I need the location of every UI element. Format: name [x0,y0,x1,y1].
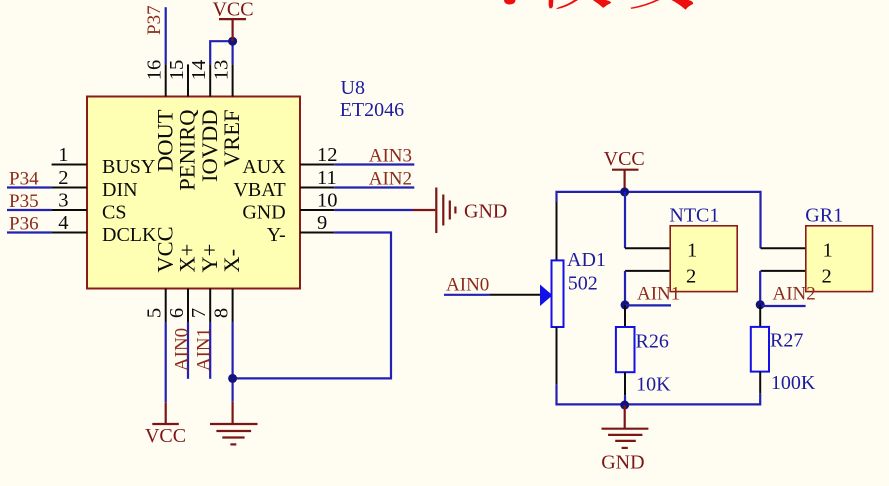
svg-text:AIN0: AIN0 [446,275,489,296]
cropped red heading strokes [504,0,693,10]
wire R26 bottom to rail [624,395,626,404]
wire VCC top rail [557,192,761,248]
wire pin10 to GND [334,209,413,211]
wire net AIN0 (wiper) [444,294,489,296]
svg-text:2: 2 [686,266,696,288]
junction pins13-14/VCC [228,37,237,46]
svg-text:AD1: AD1 [567,249,606,271]
svg-text:6: 6 [166,308,188,318]
pin 1 BUSY [52,144,156,178]
wire AD1 bottom to rail [557,384,626,404]
svg-text:3: 3 [58,189,68,211]
svg-text:Y+: Y+ [197,244,222,273]
svg-text:VCC: VCC [212,0,253,21]
svg-text:P36: P36 [9,214,39,235]
svg-text:VREF: VREF [219,110,244,168]
svg-text:13: 13 [210,60,232,81]
thermistor NTC1 [625,226,737,292]
svg-text:AIN0: AIN0 [172,328,193,371]
power VCC (top of IC) [212,0,253,41]
svg-text:VCC: VCC [145,425,186,447]
wire pin 9 Y- to pin 8 junction [233,233,391,379]
ground (earth, right circuit) [602,405,649,448]
pin 2 DIN [52,167,138,201]
wire pin 8 to ground [232,322,234,401]
wire net P34 [7,186,52,188]
svg-text:X-: X- [219,249,244,273]
svg-text:4: 4 [58,212,68,234]
wire pin 5 to VCC [165,322,167,402]
pin 11 VBAT [233,167,336,201]
wire net AIN1 (pin 7) [209,322,211,378]
junction pin 8 / Y- [228,374,237,383]
svg-text:AIN1: AIN1 [637,284,680,305]
svg-text:GR1: GR1 [805,205,843,227]
svg-text:1: 1 [823,240,833,262]
svg-text:8: 8 [210,308,232,318]
pin 6 X+ [166,244,200,323]
svg-text:502: 502 [568,273,598,295]
junction bottom rail GND [620,401,629,410]
svg-text:IOVDD: IOVDD [197,109,222,182]
pin 4 DCLK [52,212,157,246]
pin 15 PENIRQ [166,60,200,191]
potentiometer AD1 [489,202,563,384]
svg-text:10K: 10K [636,374,671,396]
junction VCC rail [620,187,629,196]
junction AIN1 node [621,300,630,309]
svg-text:VCC: VCC [604,148,645,170]
svg-text:DIN: DIN [102,179,138,201]
svg-text:GND: GND [601,452,644,474]
svg-text:DCLK: DCLK [102,224,157,246]
wire net AIN2 (pin 11) [334,186,414,188]
wire net AIN0 (pin 6) [187,322,189,378]
svg-text:P34: P34 [9,169,39,190]
svg-text:VBAT: VBAT [233,179,285,201]
svg-text:DOUT: DOUT [152,109,177,172]
wire rail to NTC1 pin 1 [624,192,626,248]
pin 14 IOVDD [188,60,222,182]
svg-text:P35: P35 [9,191,39,212]
IC U8 body [87,97,300,289]
svg-text:1: 1 [687,240,697,262]
svg-text:14: 14 [188,60,210,81]
wire net P37 (pin 16) [165,7,167,64]
svg-text:15: 15 [166,60,188,81]
svg-text:GND: GND [464,201,507,223]
svg-text:7: 7 [188,308,210,318]
pin 16 DOUT [144,60,178,172]
junction AIN2 node [756,300,765,309]
pin 12 AUX [242,144,337,178]
svg-text:Y-: Y- [267,224,286,246]
svg-text:GND: GND [242,202,285,224]
svg-text:11: 11 [317,167,337,189]
svg-text:2: 2 [822,266,832,288]
resistor R27 [751,305,769,394]
svg-text:9: 9 [317,212,327,234]
svg-text:5: 5 [144,308,166,318]
wire R27 bottom to rail [625,394,760,405]
pin 8 X- [210,249,244,323]
ground GND (sideways power ground at pin 10) [413,188,455,234]
pin 5 VCC [144,226,178,322]
svg-text:BUSY: BUSY [102,156,155,178]
power VCC (below pin 5) [145,402,186,447]
svg-text:AUX: AUX [242,156,286,178]
svg-text:R26: R26 [636,331,669,353]
wire NTC1 pin 2 to AIN1 node [624,271,626,305]
svg-text:VCC: VCC [152,226,177,272]
svg-text:U8: U8 [341,77,365,99]
pin 3 CS [52,189,127,223]
svg-text:16: 16 [144,60,166,81]
svg-text:10: 10 [317,189,338,211]
svg-text:AIN3: AIN3 [369,146,412,167]
svg-text:100K: 100K [771,372,816,394]
svg-text:AIN1: AIN1 [194,328,215,371]
svg-text:AIN2: AIN2 [773,284,816,305]
pin 7 Y+ [188,244,222,323]
svg-text:NTC1: NTC1 [669,205,719,227]
svg-text:12: 12 [317,144,338,166]
wire VCC hook pins 13-14 [210,41,232,64]
ground (earth below pin 8) [210,402,258,445]
svg-text:2: 2 [58,167,68,189]
wire GR1 pin 2 to AIN2 node [759,271,761,305]
svg-text:AIN2: AIN2 [369,169,412,190]
svg-text:CS: CS [102,202,126,224]
pin 10 GND [242,189,337,223]
wire net P35 [7,209,52,211]
svg-text:1: 1 [58,144,68,166]
wire net P36 [7,231,52,233]
wire net AIN3 [334,163,414,165]
resistor R26 [616,305,635,395]
svg-text:R27: R27 [770,330,803,352]
power VCC (right circuit) [604,148,645,192]
pin 13 VREF [210,60,244,167]
photoresistor GR1 [761,226,873,292]
wire net AIN2 stub [760,305,805,307]
svg-text:P37: P37 [144,5,165,35]
svg-text:ET2046: ET2046 [340,99,404,121]
wire net AIN1 stub [625,304,671,306]
pin 9 Y- [267,212,334,246]
